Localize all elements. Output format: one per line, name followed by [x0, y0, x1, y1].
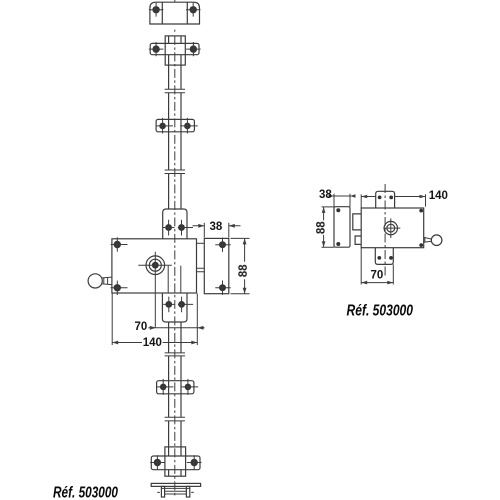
- upper guide block: [165, 36, 185, 65]
- plan keeper plate: [334, 207, 350, 248]
- svg-text:140: 140: [143, 337, 162, 349]
- rod joint 4: [165, 417, 185, 421]
- plan knob: [431, 235, 442, 246]
- cylinder outer: [146, 256, 165, 275]
- svg-text:140: 140: [429, 190, 448, 202]
- plan knob stem: [424, 237, 432, 243]
- screw plate-left: [149, 3, 164, 17]
- rod segment C: [169, 174, 181, 210]
- screw bracket2-right: [181, 379, 199, 395]
- svg-text:Réf. 503000: Réf. 503000: [347, 303, 414, 320]
- dim 38 main extension right: [228, 223, 230, 238]
- dim 140 plan extension left: [360, 194, 362, 208]
- svg-text:88: 88: [238, 264, 250, 277]
- rod segment A: [169, 36, 181, 89]
- screw guideLow-right: [187, 455, 202, 470]
- plan keeper screw top: [336, 208, 340, 212]
- plan tab screw left: [378, 196, 382, 200]
- dim 38 plan line+arrows: [329, 194, 356, 198]
- plan bottom tab screw right: [389, 256, 393, 260]
- dim 140 plan line+arrows: [361, 195, 425, 199]
- plan keeper screw bottom: [336, 242, 340, 246]
- screw guide-right: [186, 42, 201, 56]
- svg-text:38: 38: [210, 221, 223, 233]
- screw plateR-top: [215, 238, 230, 252]
- top keeper plate: [150, 2, 200, 24]
- floor socket right leg: [186, 486, 189, 497]
- centerline plan view: [384, 184, 386, 278]
- right strike plate: [204, 238, 229, 293]
- screw lockBot-right: [178, 297, 193, 313]
- bolt lines body-to-plate: [197, 268, 205, 272]
- svg-text:38: 38: [319, 189, 332, 201]
- left knob circle: [88, 274, 102, 288]
- guide bracket 2: [157, 381, 194, 394]
- screw guide-left: [149, 42, 164, 56]
- plan left protrusion upper: [353, 214, 361, 230]
- rod segment B: [169, 93, 181, 170]
- plan top tab: [376, 191, 395, 208]
- dim 70 plan extensions: [361, 248, 393, 285]
- lower guide block: [165, 447, 186, 476]
- left knob stem: [102, 277, 112, 285]
- plan bottom tab: [375, 248, 393, 265]
- screw guideLow-left: [150, 455, 165, 470]
- plan body screw top-right: [419, 209, 423, 213]
- plan left protrusion lower: [355, 236, 361, 244]
- screw bracket1-left: [156, 118, 173, 134]
- floor plate: [151, 483, 200, 486]
- rod joint 2: [165, 170, 185, 174]
- screw bracket2-left: [157, 379, 174, 395]
- floor socket side ticks: [157, 491, 194, 493]
- rod segment E: [169, 356, 181, 417]
- svg-text:88: 88: [316, 221, 328, 234]
- svg-text:70: 70: [371, 270, 384, 282]
- floor socket left leg: [161, 486, 164, 497]
- cylinder middle: [149, 259, 161, 271]
- dim 140 plan extension right: [425, 194, 427, 206]
- tab line body-to-plate: [197, 242, 205, 244]
- lower guide wings: [151, 456, 200, 470]
- plate division line right: [186, 2, 188, 24]
- screw lockBot-left: [163, 297, 174, 313]
- dim 38 main line+arrows: [193, 224, 241, 228]
- plan cylinder outer: [384, 221, 397, 234]
- screw bracket1-right: [180, 118, 198, 134]
- dim 70 main line+arrows: [149, 326, 205, 330]
- screw body top-left: [111, 237, 128, 251]
- dim 88 main extensions: [231, 238, 250, 293]
- dim 88 plan extensions: [322, 207, 335, 247]
- dim 88 plan line+arrows: [322, 207, 326, 247]
- lock top bracket: [163, 209, 187, 239]
- lock bottom bracket: [162, 293, 187, 322]
- plan cylinder inner: [387, 224, 395, 232]
- rod segment F: [169, 421, 181, 476]
- rod hidden lines in body: [168, 266, 181, 293]
- upper guide wings: [150, 43, 199, 54]
- rod joint 1: [165, 89, 185, 92]
- dim 70 main extension right: [196, 294, 198, 332]
- screw plateR-bottom: [215, 281, 230, 295]
- svg-text:Réf. 503000: Réf. 503000: [53, 485, 118, 500]
- floor socket horizontals: [161, 488, 189, 494]
- plan bottom tab screw left: [377, 256, 381, 260]
- cylinder cross lines: [138, 252, 172, 328]
- screw lockTop-right: [178, 220, 193, 236]
- rod joint 3: [165, 353, 185, 356]
- dim 38 plan extensions: [334, 194, 350, 207]
- main lock body: [112, 239, 197, 293]
- screw plate-right: [186, 3, 201, 17]
- cylinder core: [152, 262, 159, 269]
- dim 140 main extensions: [112, 294, 197, 346]
- dim 140 main line+arrows: [112, 341, 197, 345]
- plan main body: [361, 208, 424, 248]
- dim 70 plan line+arrows: [361, 281, 393, 285]
- centerline main view: [174, 0, 176, 32]
- guide bracket 1: [156, 119, 194, 131]
- plate division line left: [161, 2, 163, 24]
- screw lockTop-left: [163, 220, 174, 236]
- rod segment D: [169, 322, 181, 353]
- plan tab screw right: [389, 196, 393, 200]
- plan cylinder cross: [383, 218, 400, 238]
- plan body screw bottom-right: [419, 243, 423, 247]
- dim 38 main extension left: [203, 223, 205, 238]
- screw body bottom-left: [111, 281, 128, 295]
- svg-text:70: 70: [135, 321, 148, 333]
- dim 88 main line+arrows: [243, 238, 247, 293]
